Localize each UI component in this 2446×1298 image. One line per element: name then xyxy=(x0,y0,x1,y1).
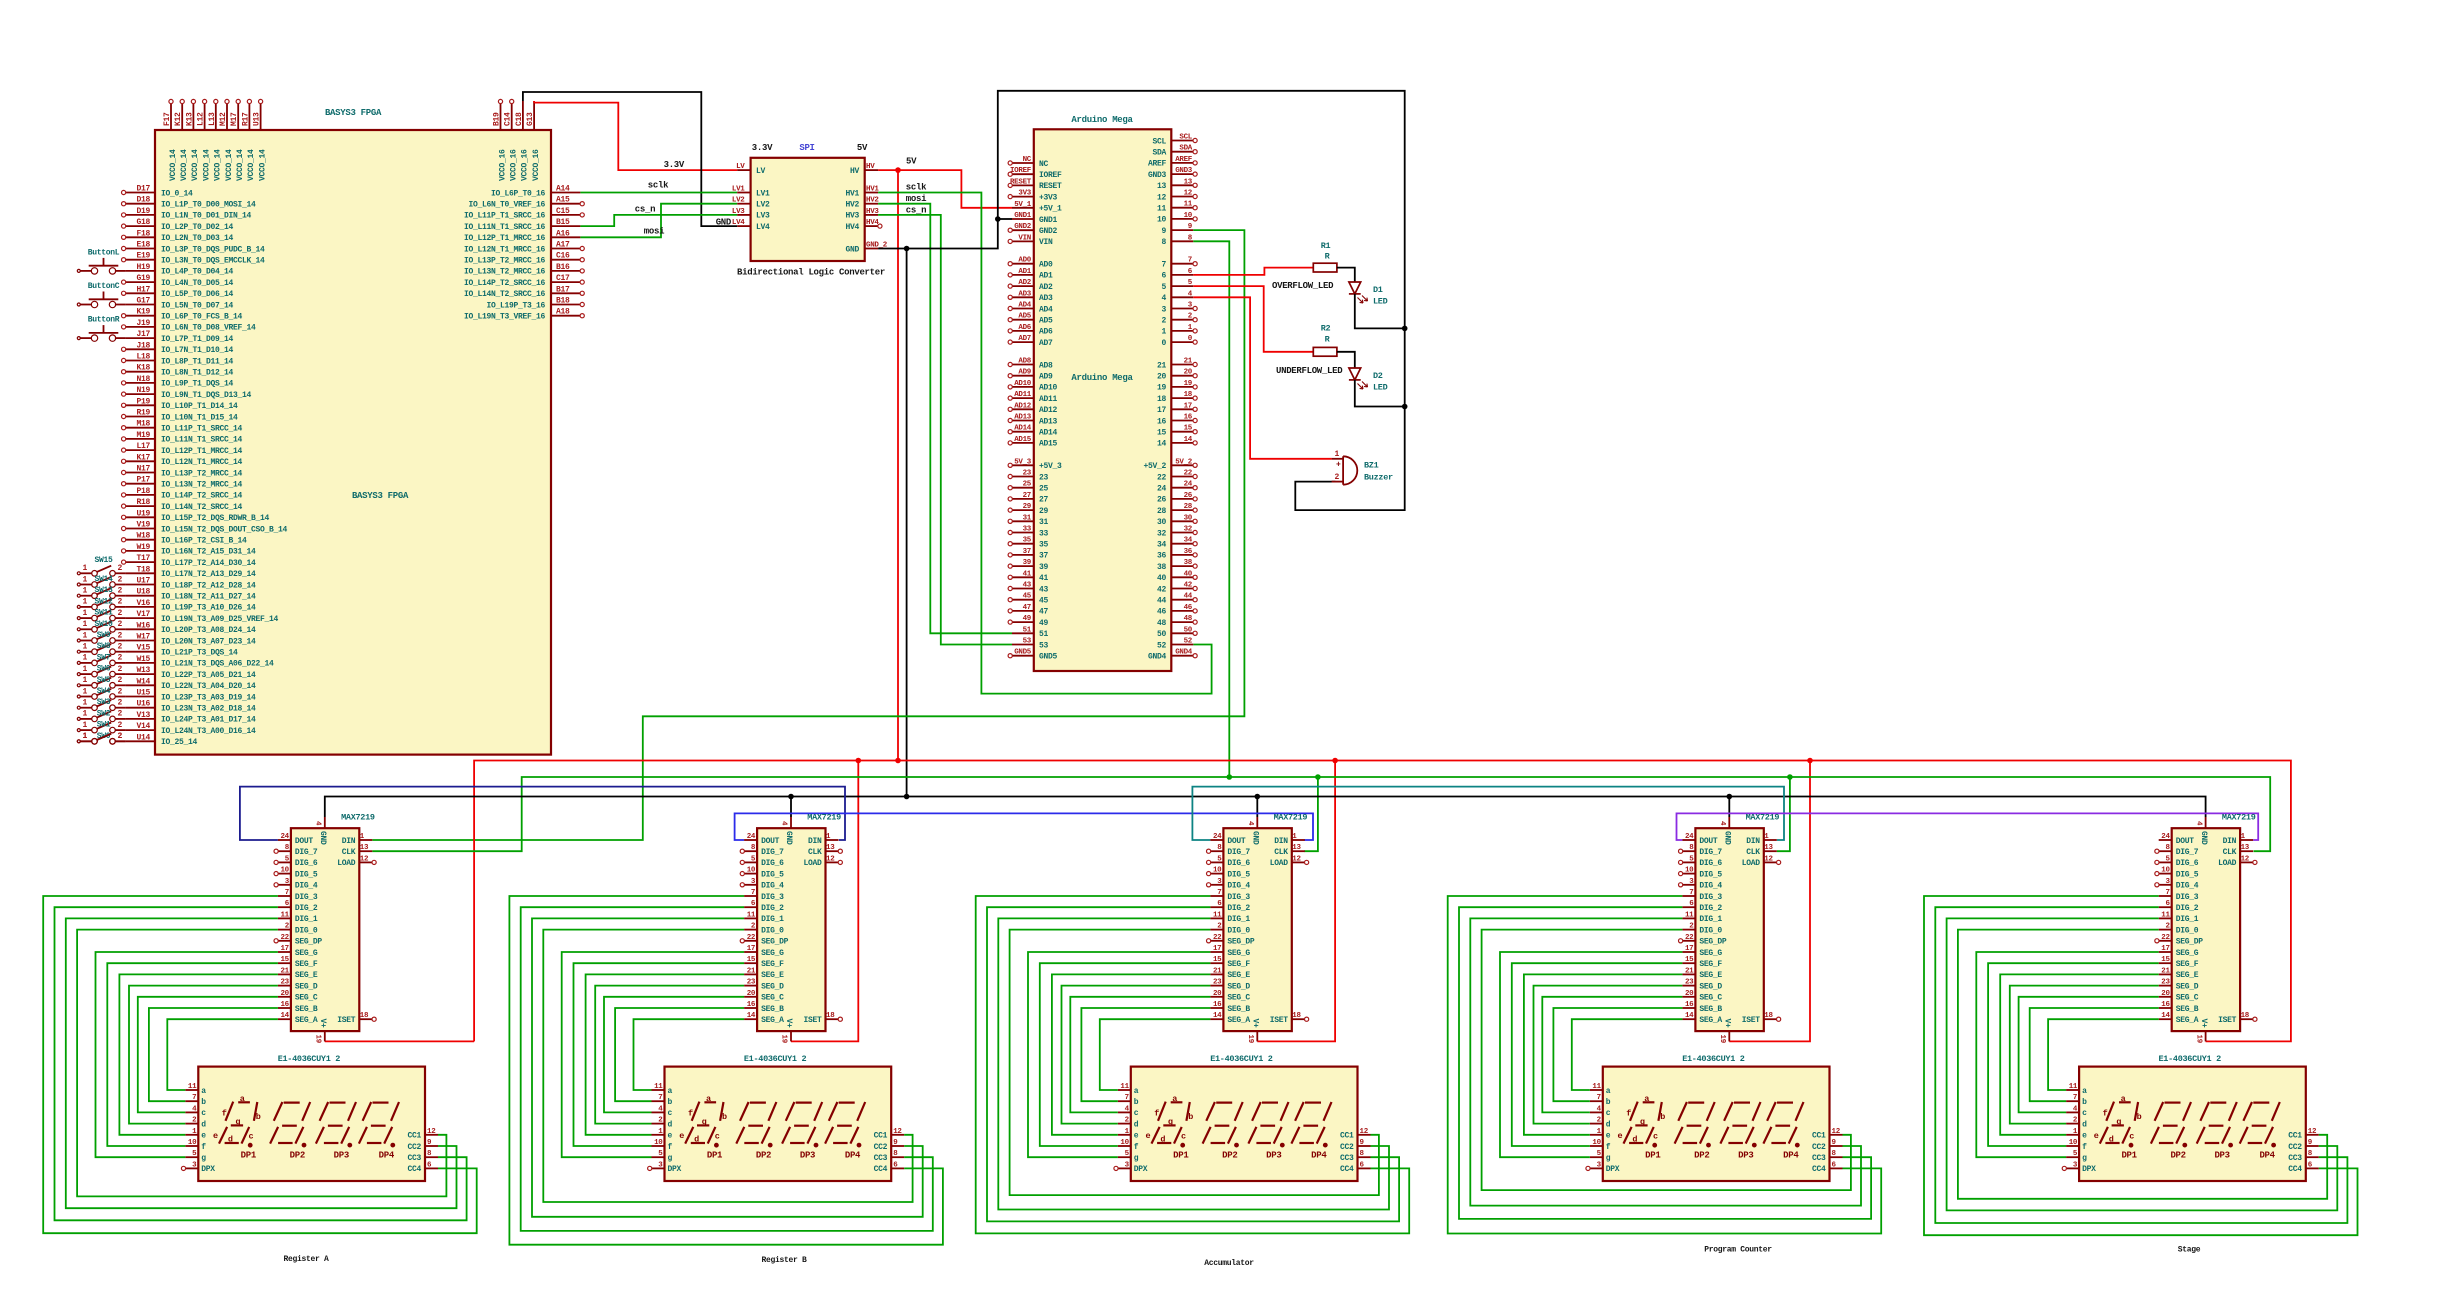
svg-text:DIG_5: DIG_5 xyxy=(295,870,318,879)
svg-text:5V: 5V xyxy=(857,143,868,153)
svg-text:ButtonL: ButtonL xyxy=(88,248,120,257)
svg-text:SEG_F: SEG_F xyxy=(1227,960,1250,969)
svg-text:e: e xyxy=(2094,1131,2099,1141)
svg-text:7: 7 xyxy=(751,889,755,897)
svg-text:12: 12 xyxy=(2241,855,2250,863)
svg-text:45: 45 xyxy=(1039,597,1049,606)
svg-text:E1-4036CUY1 2: E1-4036CUY1 2 xyxy=(2158,1054,2221,1064)
svg-text:11: 11 xyxy=(1120,1083,1129,1091)
svg-text:31: 31 xyxy=(1023,514,1032,522)
MAX7219 Register B V+ pin 19 xyxy=(780,1019,794,1044)
svg-text:b: b xyxy=(668,1098,673,1107)
svg-text:AD5: AD5 xyxy=(1018,313,1031,321)
svg-text:H19: H19 xyxy=(136,263,150,272)
svg-text:IO_L5P_T0_D06_14: IO_L5P_T0_D06_14 xyxy=(161,290,234,299)
svg-text:51: 51 xyxy=(1023,626,1032,634)
svg-text:DIG_2: DIG_2 xyxy=(1227,904,1250,913)
svg-text:DPX: DPX xyxy=(2082,1165,2096,1174)
svg-text:CLK: CLK xyxy=(342,848,356,857)
svg-text:40: 40 xyxy=(1184,570,1193,578)
svg-text:SEG_C: SEG_C xyxy=(1227,994,1250,1003)
svg-text:f: f xyxy=(668,1143,673,1152)
svg-text:DP1: DP1 xyxy=(2121,1151,2137,1161)
svg-text:e: e xyxy=(1145,1131,1150,1141)
svg-text:DIG_4: DIG_4 xyxy=(2176,882,2199,891)
svg-text:C15: C15 xyxy=(556,207,570,216)
svg-text:DP3: DP3 xyxy=(1738,1151,1753,1161)
svg-text:J17: J17 xyxy=(136,330,150,339)
svg-text:b: b xyxy=(1606,1098,1611,1107)
wire Arduino pin 9 to MAX1 DIN xyxy=(372,230,1244,840)
GND bus black xyxy=(325,794,2206,817)
svg-text:1: 1 xyxy=(82,598,87,607)
wire Arduino pin 8 to CLK bus xyxy=(1193,241,1229,777)
svg-text:CC1: CC1 xyxy=(1812,1132,1826,1141)
svg-text:20: 20 xyxy=(1685,990,1694,998)
svg-text:AD9: AD9 xyxy=(1039,373,1053,382)
svg-text:23: 23 xyxy=(2161,979,2170,987)
svg-text:23: 23 xyxy=(1023,470,1032,478)
svg-text:SEG_A: SEG_A xyxy=(295,1016,318,1025)
svg-text:15: 15 xyxy=(747,956,756,964)
svg-text:SW8: SW8 xyxy=(97,642,111,651)
svg-text:V13: V13 xyxy=(136,711,150,720)
svg-text:SEG_D: SEG_D xyxy=(295,982,318,991)
display Accumulator right pins xyxy=(1340,1128,1371,1174)
svg-text:Buzzer: Buzzer xyxy=(1364,473,1393,483)
MAX7219 U4 Register B driver body xyxy=(757,813,841,1032)
svg-text:K13: K13 xyxy=(185,112,194,126)
svg-text:IO_L11N_T1_SRCC_16: IO_L11N_T1_SRCC_16 xyxy=(464,223,546,232)
MAX7219 Register A GND pin 4 xyxy=(314,817,328,845)
svg-text:MAX7219: MAX7219 xyxy=(2222,813,2256,823)
svg-text:24: 24 xyxy=(1184,481,1193,489)
svg-text:HV4: HV4 xyxy=(845,223,859,232)
svg-text:VCCO_14: VCCO_14 xyxy=(180,149,189,181)
svg-text:SEG_DP: SEG_DP xyxy=(2176,938,2204,947)
svg-text:39: 39 xyxy=(1023,559,1032,567)
slide switch SW4 xyxy=(77,687,125,699)
svg-text:GND: GND xyxy=(1723,831,1732,845)
svg-text:44: 44 xyxy=(1184,593,1193,601)
svg-text:Stage: Stage xyxy=(2178,1246,2201,1255)
svg-text:IO_L19N_T3_VREF_16: IO_L19N_T3_VREF_16 xyxy=(464,313,546,322)
push button ButtonR xyxy=(77,316,125,342)
svg-text:cs_n: cs_n xyxy=(906,205,926,215)
svg-text:11: 11 xyxy=(2069,1083,2078,1091)
svg-text:VCCO_14: VCCO_14 xyxy=(258,149,267,181)
MAX7219 Stage GND pin 4 xyxy=(2194,817,2208,845)
svg-text:1: 1 xyxy=(82,620,87,629)
svg-text:LOAD: LOAD xyxy=(1742,859,1761,868)
svg-text:CC1: CC1 xyxy=(2288,1132,2302,1141)
Arduino right pins xyxy=(1143,134,1197,662)
svg-text:46: 46 xyxy=(1184,604,1193,612)
svg-text:15: 15 xyxy=(1213,956,1222,964)
svg-text:23: 23 xyxy=(747,979,756,987)
svg-text:AD12: AD12 xyxy=(1039,406,1058,415)
svg-text:AD8: AD8 xyxy=(1018,358,1031,366)
svg-text:+5V_2: +5V_2 xyxy=(1143,462,1166,471)
svg-text:IO_L20N_T3_A07_D23_14: IO_L20N_T3_A07_D23_14 xyxy=(161,637,256,646)
svg-text:DIN: DIN xyxy=(2223,837,2237,846)
svg-text:16: 16 xyxy=(1685,1001,1694,1009)
svg-text:22: 22 xyxy=(1184,470,1193,478)
svg-text:AD10: AD10 xyxy=(1039,384,1058,393)
slide switch SW1 xyxy=(77,721,125,733)
wire mosi HV2 to Arduino pin 51 xyxy=(878,194,1012,633)
svg-text:DP3: DP3 xyxy=(2214,1151,2229,1161)
svg-text:19: 19 xyxy=(1184,380,1193,388)
svg-text:43: 43 xyxy=(1023,582,1032,590)
svg-text:DPX: DPX xyxy=(668,1165,682,1174)
svg-text:13: 13 xyxy=(2241,844,2250,852)
svg-text:2: 2 xyxy=(117,587,122,596)
svg-text:DP2: DP2 xyxy=(756,1151,771,1161)
svg-text:GND3: GND3 xyxy=(1175,167,1193,175)
svg-text:5V: 5V xyxy=(906,157,917,167)
svg-text:7: 7 xyxy=(2073,1094,2077,1102)
svg-text:K18: K18 xyxy=(136,364,150,373)
svg-text:7: 7 xyxy=(285,889,289,897)
svg-text:A17: A17 xyxy=(556,241,570,250)
svg-text:Register A: Register A xyxy=(283,1255,329,1264)
svg-text:IO_L19P_T3_16: IO_L19P_T3_16 xyxy=(486,301,545,310)
slide switch SW12 xyxy=(77,597,125,609)
svg-text:SW2: SW2 xyxy=(97,709,111,718)
slide switch SW3 xyxy=(77,698,125,710)
svg-text:DIG_2: DIG_2 xyxy=(761,904,784,913)
svg-text:d: d xyxy=(228,1135,233,1145)
svg-text:DP4: DP4 xyxy=(1311,1151,1327,1161)
digit select wires Accumulator CC1..CC4 to DIG pins xyxy=(976,896,1409,1233)
MAX7219 U5 Accumulator driver body xyxy=(1223,813,1307,1032)
svg-text:b: b xyxy=(722,1112,727,1122)
daisy chain wire MAX3 DOUT to MAX4 DIN teal xyxy=(1192,787,1784,840)
svg-text:f: f xyxy=(222,1109,227,1119)
svg-text:HV1: HV1 xyxy=(866,186,879,194)
svg-text:16: 16 xyxy=(1184,414,1193,422)
svg-text:AD1: AD1 xyxy=(1039,272,1053,281)
svg-text:IO_L19P_T3_A10_D26_14: IO_L19P_T3_A10_D26_14 xyxy=(161,604,256,613)
svg-text:NC: NC xyxy=(1039,160,1049,169)
svg-text:AD14: AD14 xyxy=(1039,429,1058,438)
svg-text:DP4: DP4 xyxy=(1783,1151,1799,1161)
svg-text:SEG_C: SEG_C xyxy=(295,994,318,1003)
label Register A xyxy=(283,1255,329,1264)
display Register A digit graphics xyxy=(213,1094,399,1161)
svg-text:U14: U14 xyxy=(136,733,150,742)
display Register A right pins xyxy=(407,1128,438,1174)
svg-text:DIN: DIN xyxy=(808,837,822,846)
svg-text:16: 16 xyxy=(747,1001,756,1009)
svg-text:IO_L2P_T0_D02_14: IO_L2P_T0_D02_14 xyxy=(161,223,234,232)
svg-text:AD6: AD6 xyxy=(1018,324,1031,332)
MAX7219 U7 Stage driver body xyxy=(2172,813,2256,1032)
svg-text:BASYS3 FPGA: BASYS3 FPGA xyxy=(325,108,382,118)
svg-text:LV2: LV2 xyxy=(732,197,745,205)
svg-text:ISET: ISET xyxy=(337,1016,356,1025)
svg-text:CC2: CC2 xyxy=(1812,1143,1826,1152)
svg-text:17: 17 xyxy=(1157,406,1167,415)
daisy chain wire MAX1 DOUT to MAX2 DIN navy xyxy=(240,787,845,840)
svg-text:AD9: AD9 xyxy=(1018,369,1031,377)
svg-text:DIG_6: DIG_6 xyxy=(1227,859,1250,868)
svg-text:E1-4036CUY1 2: E1-4036CUY1 2 xyxy=(1682,1054,1745,1064)
svg-text:g: g xyxy=(201,1154,206,1163)
display Program Counter digit graphics xyxy=(1617,1094,1803,1161)
svg-text:V19: V19 xyxy=(136,521,150,530)
svg-text:2: 2 xyxy=(117,687,122,696)
svg-text:SEG_D: SEG_D xyxy=(761,982,784,991)
svg-text:d: d xyxy=(2082,1120,2087,1129)
svg-text:20: 20 xyxy=(280,990,289,998)
svg-text:K19: K19 xyxy=(136,308,150,317)
display Register B left pins xyxy=(648,1083,682,1174)
svg-text:LV2: LV2 xyxy=(756,201,770,210)
svg-text:1: 1 xyxy=(82,721,87,730)
svg-text:SEG_E: SEG_E xyxy=(295,971,318,980)
svg-text:AD3: AD3 xyxy=(1018,290,1031,298)
svg-text:IO_L24P_T3_A01_D17_14: IO_L24P_T3_A01_D17_14 xyxy=(161,716,256,725)
svg-text:W14: W14 xyxy=(136,677,150,686)
svg-text:17: 17 xyxy=(2161,945,2169,953)
svg-text:g: g xyxy=(235,1117,240,1127)
display Register B right pins xyxy=(874,1128,905,1174)
svg-text:A15: A15 xyxy=(556,196,570,205)
svg-text:g: g xyxy=(2082,1154,2087,1163)
svg-text:DP2: DP2 xyxy=(1222,1151,1237,1161)
svg-text:1: 1 xyxy=(82,710,87,719)
svg-text:P18: P18 xyxy=(136,487,150,496)
svg-text:18: 18 xyxy=(2241,1012,2250,1020)
daisy chain wire MAX4 DOUT to MAX5 DIN purple xyxy=(1677,813,2259,840)
svg-text:+3V3: +3V3 xyxy=(1039,193,1058,202)
svg-text:c: c xyxy=(668,1109,673,1118)
MAX7219 Program Counter GND pin 4 xyxy=(1718,817,1732,845)
svg-text:b: b xyxy=(201,1098,206,1107)
svg-text:GND4: GND4 xyxy=(1148,653,1167,662)
svg-text:VCCO_14: VCCO_14 xyxy=(191,149,200,181)
svg-text:CLK: CLK xyxy=(1746,848,1760,857)
svg-text:CC4: CC4 xyxy=(874,1165,888,1174)
svg-text:4: 4 xyxy=(1161,294,1166,303)
sclk CLK bus green xyxy=(372,774,2270,851)
svg-text:SW12: SW12 xyxy=(94,597,113,606)
slide switch SW13 xyxy=(77,586,125,598)
svg-text:SEG_E: SEG_E xyxy=(1227,971,1250,980)
svg-text:ISET: ISET xyxy=(2218,1016,2237,1025)
label Stage xyxy=(2178,1246,2201,1255)
svg-text:31: 31 xyxy=(1039,518,1049,527)
svg-text:AD2: AD2 xyxy=(1018,279,1031,287)
svg-text:SW3: SW3 xyxy=(97,698,111,707)
svg-text:DIG_3: DIG_3 xyxy=(2176,893,2199,902)
svg-text:V15: V15 xyxy=(136,644,150,653)
svg-text:LV1: LV1 xyxy=(732,186,745,194)
LED D1 OVERFLOW_LED xyxy=(1272,281,1388,307)
svg-text:12: 12 xyxy=(1184,190,1193,198)
svg-text:1: 1 xyxy=(1334,450,1339,459)
svg-text:GND5: GND5 xyxy=(1014,649,1032,657)
svg-text:10: 10 xyxy=(1592,1139,1601,1147)
svg-text:SEG_F: SEG_F xyxy=(295,960,318,969)
svg-text:SCL: SCL xyxy=(1179,134,1192,142)
svg-text:23: 23 xyxy=(1685,979,1694,987)
svg-text:50: 50 xyxy=(1157,630,1167,639)
svg-text:15: 15 xyxy=(1184,425,1193,433)
svg-text:AD7: AD7 xyxy=(1039,339,1053,348)
svg-text:HV3: HV3 xyxy=(845,212,859,221)
svg-text:mosi: mosi xyxy=(906,194,927,204)
slide switch SW8 xyxy=(77,642,125,654)
svg-text:D1: D1 xyxy=(1373,285,1383,295)
svg-text:c: c xyxy=(248,1132,253,1142)
svg-text:DP2: DP2 xyxy=(290,1151,305,1161)
wire sclk HV1 to Arduino pin 52 xyxy=(878,183,1212,694)
svg-text:14: 14 xyxy=(1213,1012,1222,1020)
svg-text:SCL: SCL xyxy=(1152,137,1166,146)
svg-text:IO_L3N_T0_DQS_EMCCLK_14: IO_L3N_T0_DQS_EMCCLK_14 xyxy=(161,257,265,266)
label Accumulator xyxy=(1204,1259,1254,1268)
svg-text:A16: A16 xyxy=(556,229,570,238)
display Program Counter right pins xyxy=(1812,1128,1843,1174)
svg-text:24: 24 xyxy=(1157,485,1167,494)
svg-text:d: d xyxy=(694,1135,699,1145)
svg-text:AD10: AD10 xyxy=(1014,380,1032,388)
display D4 E1-4036CUY1 Register B body xyxy=(665,1054,892,1181)
svg-text:SEG_G: SEG_G xyxy=(1227,949,1250,958)
svg-text:HV: HV xyxy=(866,163,875,171)
svg-text:27: 27 xyxy=(1039,496,1049,505)
svg-text:IO_L14N_T2_SRCC_14: IO_L14N_T2_SRCC_14 xyxy=(161,503,243,512)
svg-text:23: 23 xyxy=(280,979,289,987)
svg-text:GND: GND xyxy=(1251,831,1260,845)
svg-text:CC4: CC4 xyxy=(2288,1165,2302,1174)
svg-text:10: 10 xyxy=(188,1139,197,1147)
svg-text:f: f xyxy=(1606,1143,1611,1152)
svg-text:12: 12 xyxy=(1292,855,1301,863)
svg-text:OVERFLOW_LED: OVERFLOW_LED xyxy=(1272,281,1334,291)
svg-text:IO_L15P_T2_DQS_RDWR_B_14: IO_L15P_T2_DQS_RDWR_B_14 xyxy=(161,514,270,523)
svg-text:a: a xyxy=(706,1094,711,1104)
svg-text:DIG_4: DIG_4 xyxy=(1227,882,1250,891)
svg-text:LV: LV xyxy=(756,167,766,176)
svg-text:14: 14 xyxy=(2161,1012,2170,1020)
svg-text:18: 18 xyxy=(826,1012,835,1020)
svg-text:53: 53 xyxy=(1039,641,1049,650)
svg-text:J19: J19 xyxy=(136,319,150,328)
svg-text:g: g xyxy=(1640,1117,1645,1127)
svg-text:30: 30 xyxy=(1184,514,1193,522)
svg-text:IO_L6P_T0_FCS_B_14: IO_L6P_T0_FCS_B_14 xyxy=(161,313,243,322)
svg-text:3.3V: 3.3V xyxy=(664,160,685,170)
svg-text:1: 1 xyxy=(82,687,87,696)
push button ButtonL xyxy=(77,248,125,274)
svg-text:49: 49 xyxy=(1039,619,1049,628)
svg-text:11: 11 xyxy=(1592,1083,1601,1091)
svg-text:DOUT: DOUT xyxy=(761,837,780,846)
svg-text:IO_L7P_T1_D09_14: IO_L7P_T1_D09_14 xyxy=(161,335,234,344)
svg-text:CC4: CC4 xyxy=(1812,1165,1826,1174)
svg-text:10: 10 xyxy=(654,1139,663,1147)
svg-text:10: 10 xyxy=(1157,216,1167,225)
svg-text:B15: B15 xyxy=(556,218,570,227)
MAX7219 Register A V+ pin 19 xyxy=(314,1019,328,1044)
svg-text:18: 18 xyxy=(1157,395,1167,404)
svg-text:15: 15 xyxy=(1157,429,1167,438)
5V bus red xyxy=(325,758,2291,1042)
svg-text:c: c xyxy=(1181,1132,1186,1142)
svg-text:13: 13 xyxy=(1157,182,1167,191)
svg-text:LOAD: LOAD xyxy=(337,859,356,868)
svg-text:M19: M19 xyxy=(136,431,150,440)
svg-text:16: 16 xyxy=(280,1001,289,1009)
svg-text:1: 1 xyxy=(82,609,87,618)
svg-text:K12: K12 xyxy=(174,112,183,126)
svg-text:f: f xyxy=(1154,1109,1159,1119)
svg-text:SW11: SW11 xyxy=(94,609,113,618)
svg-text:10: 10 xyxy=(2069,1139,2078,1147)
svg-text:34: 34 xyxy=(1157,541,1167,550)
svg-text:18: 18 xyxy=(1292,1012,1301,1020)
svg-text:IO_L17N_T2_A13_D29_14: IO_L17N_T2_A13_D29_14 xyxy=(161,570,256,579)
svg-text:47: 47 xyxy=(1023,604,1031,612)
svg-text:L13: L13 xyxy=(208,112,217,126)
svg-text:b: b xyxy=(256,1112,261,1122)
svg-text:DIG_0: DIG_0 xyxy=(761,926,784,935)
svg-text:12: 12 xyxy=(1832,1128,1841,1136)
svg-text:HV2: HV2 xyxy=(845,201,859,210)
display Accumulator digit graphics xyxy=(1145,1094,1331,1161)
slide switch SW6 xyxy=(77,665,125,677)
FPGA U1 BASYS3 body xyxy=(155,108,551,755)
svg-text:12: 12 xyxy=(826,855,835,863)
svg-text:CC4: CC4 xyxy=(1340,1165,1354,1174)
svg-text:50: 50 xyxy=(1184,626,1193,634)
display Register A left pins xyxy=(181,1083,215,1174)
svg-text:U15: U15 xyxy=(136,689,150,698)
svg-text:DIG_0: DIG_0 xyxy=(1227,926,1250,935)
svg-text:19: 19 xyxy=(780,1035,788,1044)
svg-text:9: 9 xyxy=(1161,227,1166,236)
svg-text:GND: GND xyxy=(716,218,732,228)
svg-text:DIG_0: DIG_0 xyxy=(295,926,318,935)
svg-text:e: e xyxy=(1606,1132,1611,1141)
svg-text:DPX: DPX xyxy=(1134,1165,1148,1174)
segment wires Stage SEG_G..SEG_A to display xyxy=(1976,952,2158,1157)
svg-text:E1-4036CUY1 2: E1-4036CUY1 2 xyxy=(1210,1054,1273,1064)
svg-text:V16: V16 xyxy=(136,599,150,608)
svg-text:30: 30 xyxy=(1157,518,1167,527)
digit select wires Program Counter CC1..CC4 to DIG pins xyxy=(1448,896,1882,1234)
svg-text:LOAD: LOAD xyxy=(2218,859,2237,868)
svg-text:D18: D18 xyxy=(136,196,150,205)
svg-text:K17: K17 xyxy=(136,453,150,462)
svg-text:cs_n: cs_n xyxy=(635,205,655,215)
MAX7219 Program Counter left pins xyxy=(1679,833,1727,1025)
svg-text:DIG_3: DIG_3 xyxy=(1699,893,1722,902)
svg-text:LOAD: LOAD xyxy=(1270,859,1289,868)
svg-text:IO_L5N_T0_D07_14: IO_L5N_T0_D07_14 xyxy=(161,301,234,310)
svg-text:SEG_F: SEG_F xyxy=(761,960,784,969)
svg-text:MAX7219: MAX7219 xyxy=(341,813,375,823)
svg-text:E19: E19 xyxy=(136,252,150,261)
svg-text:DIG_2: DIG_2 xyxy=(1699,904,1722,913)
svg-text:c: c xyxy=(201,1109,206,1118)
svg-text:DIG_7: DIG_7 xyxy=(1227,848,1250,857)
svg-text:42: 42 xyxy=(1157,585,1167,594)
